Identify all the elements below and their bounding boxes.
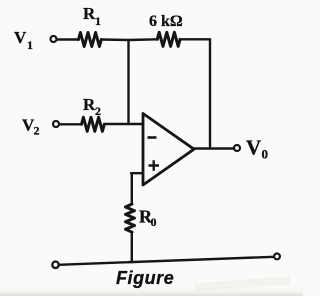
svg-text:V: V xyxy=(246,136,261,160)
svg-text:6 kΩ: 6 kΩ xyxy=(149,13,183,30)
wire: R1 to 6k xyxy=(101,38,157,41)
terminal bottom-left xyxy=(52,262,58,268)
terminal V2 xyxy=(53,121,59,127)
faint smudge right of caption xyxy=(195,277,290,292)
svg-text:1: 1 xyxy=(95,14,101,28)
op-amp plus sign xyxy=(149,160,160,171)
wire: R2 to op-amp inverting input xyxy=(104,123,143,125)
wire: bottom rail xyxy=(59,257,275,265)
resistor 6k xyxy=(157,32,180,46)
terminal V1 xyxy=(51,36,57,42)
svg-text:2: 2 xyxy=(34,124,40,138)
svg-text:2: 2 xyxy=(95,104,101,118)
wire: non-inverting input step xyxy=(131,173,143,204)
wire: right vertical down to output xyxy=(209,39,211,148)
wire: junction down to inverting input xyxy=(127,40,129,124)
svg-text:Figure: Figure xyxy=(116,268,174,288)
wire: V2 to R2 xyxy=(59,123,82,125)
svg-text:0: 0 xyxy=(151,215,157,229)
op-amp U1 xyxy=(143,114,194,186)
wire: R0 to ground rail xyxy=(131,232,133,262)
svg-text:1: 1 xyxy=(27,38,33,52)
resistor R2 xyxy=(82,117,105,131)
wire: 6k to corner xyxy=(180,38,210,40)
terminal bottom-right xyxy=(274,254,280,260)
resistor R1 xyxy=(79,33,102,47)
resistor R0 xyxy=(126,204,135,232)
svg-text:0: 0 xyxy=(262,147,269,162)
op-amp minus sign xyxy=(148,136,157,139)
svg-text:V: V xyxy=(14,28,27,47)
wire: output xyxy=(194,147,235,149)
terminal V0 xyxy=(234,145,240,151)
wire: V1 to R1 xyxy=(57,38,79,40)
